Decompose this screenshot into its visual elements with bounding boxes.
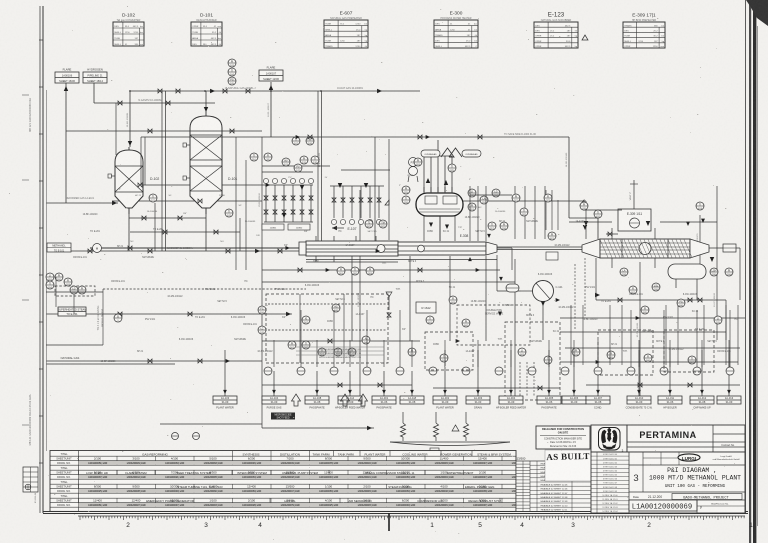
dashed package boundary center <box>266 294 388 363</box>
wire D-101 feed riser x206 <box>204 91 208 112</box>
instrument stack left of risers <box>408 158 418 183</box>
control box R1642 <box>416 302 436 313</box>
off-page connector 1A-313 <box>717 396 741 404</box>
wire verticals between drum and E-309 <box>515 186 545 239</box>
wire riser x515 <box>514 259 516 396</box>
wire right horizontals over E-309 <box>569 210 717 222</box>
stamp AS BUILT <box>545 450 592 481</box>
folding ruler bottom <box>78 513 753 531</box>
wire drops from mid headers to connector circles <box>301 310 730 367</box>
wire riser x596 <box>595 258 597 300</box>
wire inner left vertical x46.5 <box>46 90 48 451</box>
off-page connector 1A-311 <box>658 396 682 410</box>
wire double line under train <box>306 259 497 261</box>
wire right lower web verticals <box>571 305 738 365</box>
sheet index table <box>50 451 531 512</box>
off-page connector FLARE <box>55 72 79 83</box>
equipment spec table E-300 <box>434 11 478 49</box>
border frame bottom double line <box>43 512 748 514</box>
heat exchanger train E-107 body <box>299 236 398 262</box>
wire riser x262 tall <box>261 137 263 428</box>
wire natural gas feed y361 <box>46 356 262 363</box>
instruments inside center dashed box <box>288 341 296 349</box>
wire pair x141 <box>141 137 222 185</box>
wire drum risers to flare header <box>424 140 452 192</box>
off-page connector 1A-312 <box>690 396 714 410</box>
valve manifold cluster B <box>330 183 384 225</box>
belt annotations <box>119 175 506 243</box>
vessel D-101 <box>183 112 237 214</box>
wire compressor suction <box>497 255 521 291</box>
left edge label box methanol <box>47 243 71 252</box>
extra valves pass2 <box>138 135 702 390</box>
border frame right <box>745 0 747 513</box>
dashed box left small <box>55 286 95 296</box>
wire dashed verticals right of compressor <box>575 258 585 330</box>
wire D-102 feed riser x130 <box>128 91 132 147</box>
wire flare subheader riser x271 <box>269 82 273 137</box>
off-page connector 1A-305 <box>537 396 561 410</box>
wire main process double line to E-309 <box>497 247 582 250</box>
extra flags along lines <box>226 135 705 364</box>
small pump symbols bottom left <box>172 433 200 440</box>
dashed box double pipe service valve <box>457 305 530 345</box>
wire D-101 bottom drop <box>205 208 207 251</box>
wire flare riser x66 <box>64 83 68 203</box>
scan right edge dark strip <box>746 0 768 543</box>
instruments below safe header <box>488 222 496 230</box>
title block main <box>591 452 745 513</box>
zigzag expansion peaks <box>441 148 462 157</box>
wire riser pair x163 <box>162 91 166 251</box>
wire methanol header y251 <box>50 248 306 253</box>
wire right lower web horizontals <box>560 318 745 362</box>
wire hydrogen drop x94 <box>93 83 95 103</box>
instruments T1/TM pair <box>365 220 373 228</box>
drawing number <box>629 500 745 513</box>
off-page connector 1A-103 <box>213 396 237 410</box>
off-page connector 1A-302 <box>433 396 457 410</box>
wire left web lines <box>46 277 103 345</box>
project name row <box>633 494 742 501</box>
off-page connector 1A-303 <box>466 396 490 410</box>
wire y230 E-309 feed header <box>606 232 618 236</box>
left frame inner line <box>39 6 41 513</box>
valve with actuator center <box>386 292 392 317</box>
misc instruments left-low <box>114 314 122 322</box>
heat exchanger E-309 1/11 <box>582 209 709 268</box>
instruments under train <box>337 267 345 275</box>
pertamina logo box <box>591 425 627 453</box>
wire secondary header y185 left <box>118 184 264 186</box>
open trench funnel <box>390 442 510 452</box>
revision history table <box>516 461 591 512</box>
left margin mini revision grid <box>23 467 38 492</box>
off-page connector 1A-304 <box>496 396 526 410</box>
wire hatched feed line y364 <box>46 363 175 365</box>
wire TO SAFE LOCATION header y137 <box>222 133 569 137</box>
wire drum downcomers <box>424 216 455 241</box>
dashed rect mid lower <box>425 332 473 370</box>
vent line above E-309 label box <box>630 180 638 209</box>
wire mid header y270 <box>262 268 500 272</box>
wire horizontals inside center dashed box <box>268 294 386 363</box>
warning triangle near coils <box>452 425 459 431</box>
LURGI logo <box>678 454 740 461</box>
equipment spec table D-101 <box>191 13 222 47</box>
instruments center-low <box>426 316 434 324</box>
wire y232 <box>130 218 240 251</box>
equipment spec table E-309 1711 <box>623 13 665 49</box>
drum internals hatch <box>419 209 460 212</box>
steam drum D-301 <box>416 187 463 241</box>
LA instrument cluster right <box>620 268 628 276</box>
dashed signal verticals bottom center <box>520 362 534 396</box>
wire x116 drop <box>115 103 117 155</box>
microbiocide shot feed reversed label <box>271 413 295 420</box>
wire rotated pipe labels <box>127 102 716 337</box>
wire riser x640 <box>639 262 641 396</box>
wire x232-246 verticals <box>236 137 246 270</box>
node junction dots y91 <box>129 90 322 92</box>
wire riser x700 <box>699 215 701 264</box>
left margin marks <box>22 95 29 425</box>
stamp RELEASED FOR CONSTRUCTION <box>536 426 590 449</box>
E-107 inlet arrow and label <box>332 226 357 231</box>
left instrument cluster <box>46 273 54 281</box>
hatch E-309 body <box>600 240 692 258</box>
instrument stack left of D-102 top <box>228 59 236 67</box>
compressor circle <box>521 281 554 302</box>
wire riser x360 <box>359 190 361 400</box>
equipment spec table E-123 <box>534 12 578 49</box>
wire top stubs valve cluster <box>262 166 390 172</box>
instruments at drum right <box>468 189 476 197</box>
instruments below vessels <box>149 194 157 202</box>
circles above cluster B <box>300 156 308 164</box>
wire natural gas / H2 header y103 <box>94 99 215 105</box>
valve manifold cluster A (letdown station) <box>262 178 314 230</box>
drawing title text <box>649 467 741 489</box>
extra instrument bubbles pass2 <box>512 194 520 202</box>
off-page connector 1A-118 <box>400 396 424 404</box>
small drum right <box>668 264 706 300</box>
instruments right mid <box>641 306 649 314</box>
wire below-train return y262 <box>306 261 398 263</box>
wire compressor discharge down <box>542 302 544 340</box>
border frame left <box>39 6 43 513</box>
wire reformed gas line y203 <box>46 197 118 205</box>
off-page connector FLARE 2 <box>259 70 283 81</box>
wire y218 between vessels <box>129 203 206 251</box>
off-page connector 1A-310 <box>626 396 653 410</box>
dashed box right package <box>505 322 560 400</box>
instruments above connector row <box>264 367 734 375</box>
misc instruments bottom mid <box>518 348 526 356</box>
heat exchanger E-308 second body <box>377 234 512 270</box>
wire bottom long header y428 <box>160 424 374 430</box>
psv relief valves top area <box>385 200 584 205</box>
wire header y282 <box>262 281 515 283</box>
instruments beside D-101 <box>292 137 300 145</box>
left margin vertical text <box>28 98 104 503</box>
wire verticals right of drum <box>470 186 512 241</box>
instruments at drum left <box>402 186 410 194</box>
PERTAMINA header box <box>627 425 745 452</box>
vessel D-102 <box>108 147 159 214</box>
off-page connector 1A-301 <box>372 396 396 410</box>
extra flags train right <box>468 234 491 261</box>
revision rows strip <box>591 452 629 513</box>
note triangle near E-123 <box>582 35 588 40</box>
off-page connector 1A-104 <box>262 396 286 410</box>
wire train verticals down <box>352 256 486 341</box>
wire E-309 outlet right <box>709 246 740 300</box>
off-page connector 1A-306 <box>562 396 586 404</box>
scattered tiny annotations <box>73 214 738 363</box>
wire dashed signal y289 <box>103 288 306 290</box>
equipment spec table E-607 <box>324 11 368 49</box>
wire drum outlet right y201 <box>463 201 586 239</box>
wire bottom manifold links y385 <box>262 385 740 388</box>
wire more drum-right verticals <box>546 190 558 230</box>
steam trap coil symbols <box>401 412 406 441</box>
wire riser pair x318 <box>318 91 322 241</box>
wire E-107 feed line y248 from left <box>90 244 299 253</box>
wire right riser x569 staircase <box>569 137 598 239</box>
wire riser x389 <box>388 139 390 240</box>
wire riser x717 <box>716 186 718 340</box>
off-page connector 1A-307 <box>586 396 610 410</box>
overhead connector left <box>421 150 440 157</box>
small box on E-309 outlet line <box>723 244 736 252</box>
off-page connector HYDROGEN <box>83 72 107 83</box>
dashed rect right lower <box>664 330 714 372</box>
PI at E-309 inlet <box>548 232 556 240</box>
burner mini table text in dashed box <box>296 347 384 359</box>
wire D-102 bottom drop <box>128 208 130 251</box>
overhead connector right <box>462 150 481 157</box>
wire top header y91 <box>130 87 420 93</box>
off-page connector 1A-108 <box>305 396 329 410</box>
long connector drop lines <box>274 340 729 367</box>
off-page connector 1A-114 <box>335 396 365 410</box>
wire relief header y131 <box>66 129 262 133</box>
hollow vent arrows <box>292 394 368 406</box>
wire lower header y341 <box>262 339 420 343</box>
wire superheated steam y314 <box>46 312 292 316</box>
dashed box right mid <box>598 330 653 375</box>
flags below drum <box>429 222 449 229</box>
wire y201 header <box>112 200 262 202</box>
equipment spec table D-102 <box>113 13 144 47</box>
flags near E-309 <box>583 221 714 297</box>
compressor extras <box>498 277 563 316</box>
label superheated steam <box>58 307 87 316</box>
wire y300 right header <box>596 298 726 340</box>
wire riser x375 <box>374 137 376 241</box>
